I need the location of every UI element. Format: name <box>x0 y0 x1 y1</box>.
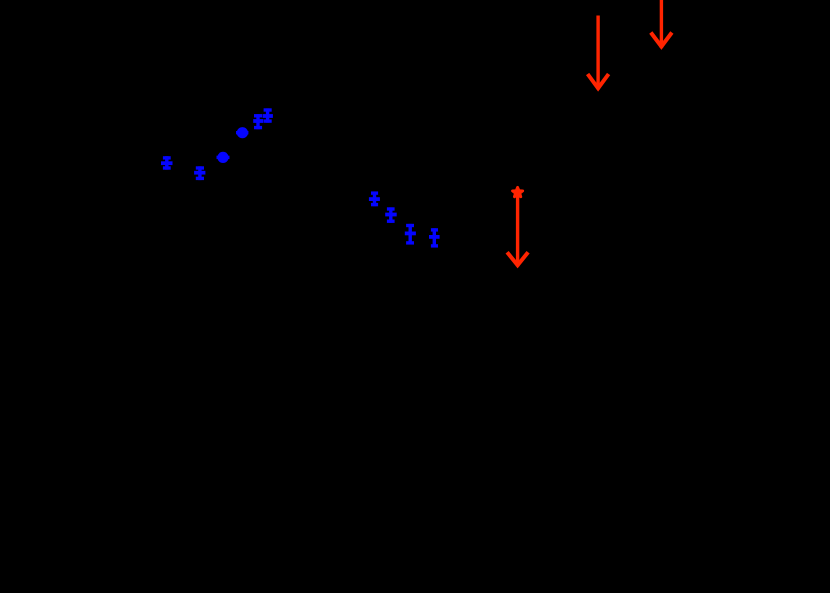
data point P2 <box>194 166 205 180</box>
data point P10 <box>429 228 440 247</box>
data point P4 (filled circle) <box>236 127 248 138</box>
upper-limit arrow A3 with star marker <box>507 187 528 266</box>
upper-limit arrow A1 <box>588 16 609 90</box>
data point P9 <box>405 224 416 245</box>
data point P6 <box>263 108 273 122</box>
upper-limit arrow A2 <box>651 0 672 48</box>
data point P3 (filled circle) <box>217 152 230 163</box>
data point P5 <box>253 114 263 129</box>
data point P7 <box>369 192 380 207</box>
data point P1 <box>161 156 173 170</box>
data point P8 <box>385 207 397 222</box>
